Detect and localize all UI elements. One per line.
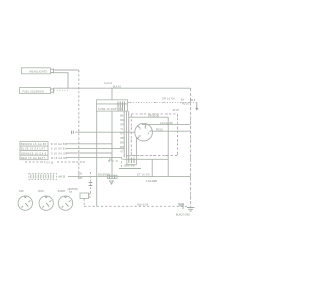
svg-text:A 16 GA BU: A 16 GA BU [51,148,67,151]
svg-text:A 16 GA RD: A 16 GA RD [160,122,173,125]
svg-text:6 GA RED: 6 GA RED [146,180,157,183]
svg-text:HEADLIGHTS: HEADLIGHTS [30,71,48,74]
svg-text:OR: OR [120,124,124,127]
svg-text:BLACK GND: BLACK GND [176,213,190,216]
svg-text:AM 16: AM 16 [58,175,66,178]
svg-text:OR 16 GA: OR 16 GA [162,98,175,101]
svg-text:BK: BK [120,115,124,118]
svg-text:BLK 16: BLK 16 [113,86,122,89]
svg-text:ORANGE 16 GA S: ORANGE 16 GA S [21,152,47,155]
svg-text:GY: GY [120,133,124,136]
svg-text:BLK 6 GA: BLK 6 GA [138,204,149,207]
svg-text:M 16 GA RD: M 16 GA RD [51,157,67,160]
svg-text:GY 16: GY 16 [47,161,54,164]
svg-text:ST: ST [69,191,73,194]
svg-text:START: START [58,190,66,193]
svg-text:RD 16: RD 16 [156,128,163,131]
svg-text:FUEL SOLENOID: FUEL SOLENOID [23,90,45,93]
svg-text:RD 16: RD 16 [182,102,189,105]
svg-text:ST 16 GA: ST 16 GA [137,174,150,177]
svg-text:12V: 12V [78,173,83,176]
svg-text:BAT: BAT [78,177,83,180]
svg-text:AV 20: AV 20 [173,109,180,112]
svg-text:OFF: OFF [19,190,24,193]
svg-text:FUSE 15 AMP 12V: FUSE 15 AMP 12V [98,108,123,111]
svg-text:OR 16 GA: OR 16 GA [148,114,159,117]
svg-text:C+A 12: C+A 12 [104,82,113,85]
svg-text:M: M [139,135,141,138]
svg-text:RED 16 GA BATT: RED 16 GA BATT [21,157,46,160]
svg-text:B 16 GA BN: B 16 GA BN [51,143,67,146]
svg-text:BROWN 16 GA BT: BROWN 16 GA BT [21,143,47,146]
svg-text:BLUE 16 GA LHT: BLUE 16 GA LHT [21,148,45,151]
svg-text:BN: BN [120,142,124,145]
svg-text:FR 6: FR 6 [190,99,196,102]
svg-text:S 16 GA OR: S 16 GA OR [51,152,67,155]
svg-text:VT: VT [120,151,124,154]
svg-text:SEAT SW: SEAT SW [124,165,135,168]
svg-text:WH: WH [120,137,124,140]
svg-text:RUN: RUN [38,190,43,193]
svg-text:RD: RD [120,119,124,122]
